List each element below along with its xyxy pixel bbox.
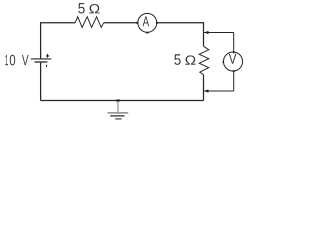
battery plus mark bbox=[47, 54, 48, 58]
ground stub bbox=[117, 101, 119, 112]
ground bar 3 bbox=[115, 118, 121, 120]
voltmeter terminal tick top bbox=[233, 51, 235, 53]
ground bar 2 bbox=[110, 115, 124, 117]
probe arrowhead bottom bbox=[204, 89, 209, 92]
wire: resistor R2 to bottom-right corner bbox=[203, 75, 205, 101]
wire: left side top + top run to resistor R1 bbox=[41, 23, 76, 59]
voltmeter letter V bbox=[229, 54, 237, 64]
resistor R2 5 ohm (right zigzag) bbox=[199, 46, 209, 74]
probe arrowhead top bbox=[204, 31, 209, 34]
ammeter U1 circle bbox=[138, 13, 157, 32]
battery V1 positive plate (long, top) bbox=[31, 58, 52, 60]
wire: voltmeter probe bottom bbox=[204, 90, 234, 92]
voltmeter terminal tick bottom bbox=[233, 70, 235, 72]
ground junction dot bbox=[117, 99, 120, 101]
voltmeter minus mark left bbox=[223, 61, 225, 63]
battery minus mark bbox=[46, 65, 47, 67]
wire: resistor R1 to ammeter bbox=[104, 22, 138, 24]
wire: voltmeter probe top bbox=[204, 32, 234, 34]
voltmeter U2 circle bbox=[223, 52, 242, 71]
battery V1 negative plate (short, bottom) bbox=[35, 61, 48, 63]
resistor R1 5 ohm (top zigzag) bbox=[75, 17, 104, 28]
value label 10 V bbox=[5, 55, 28, 66]
wire: probe down to voltmeter top terminal bbox=[233, 33, 235, 53]
ammeter terminal tick right bbox=[156, 22, 158, 24]
ammeter letter A bbox=[143, 16, 150, 26]
ammeter terminal tick left bbox=[136, 22, 138, 24]
wire: voltmeter bottom terminal down bbox=[233, 71, 235, 91]
ammeter minus mark bottom bbox=[146, 32, 149, 34]
ground bar 1 bbox=[108, 112, 129, 114]
value label 5 ohm (right) bbox=[174, 54, 195, 65]
wire: bottom run bbox=[41, 100, 204, 102]
wire: left side below battery bbox=[40, 62, 42, 101]
wire: ammeter to top-right corner and down to resistor R2 bbox=[157, 23, 204, 47]
value label 5 ohm (top) bbox=[78, 3, 99, 14]
